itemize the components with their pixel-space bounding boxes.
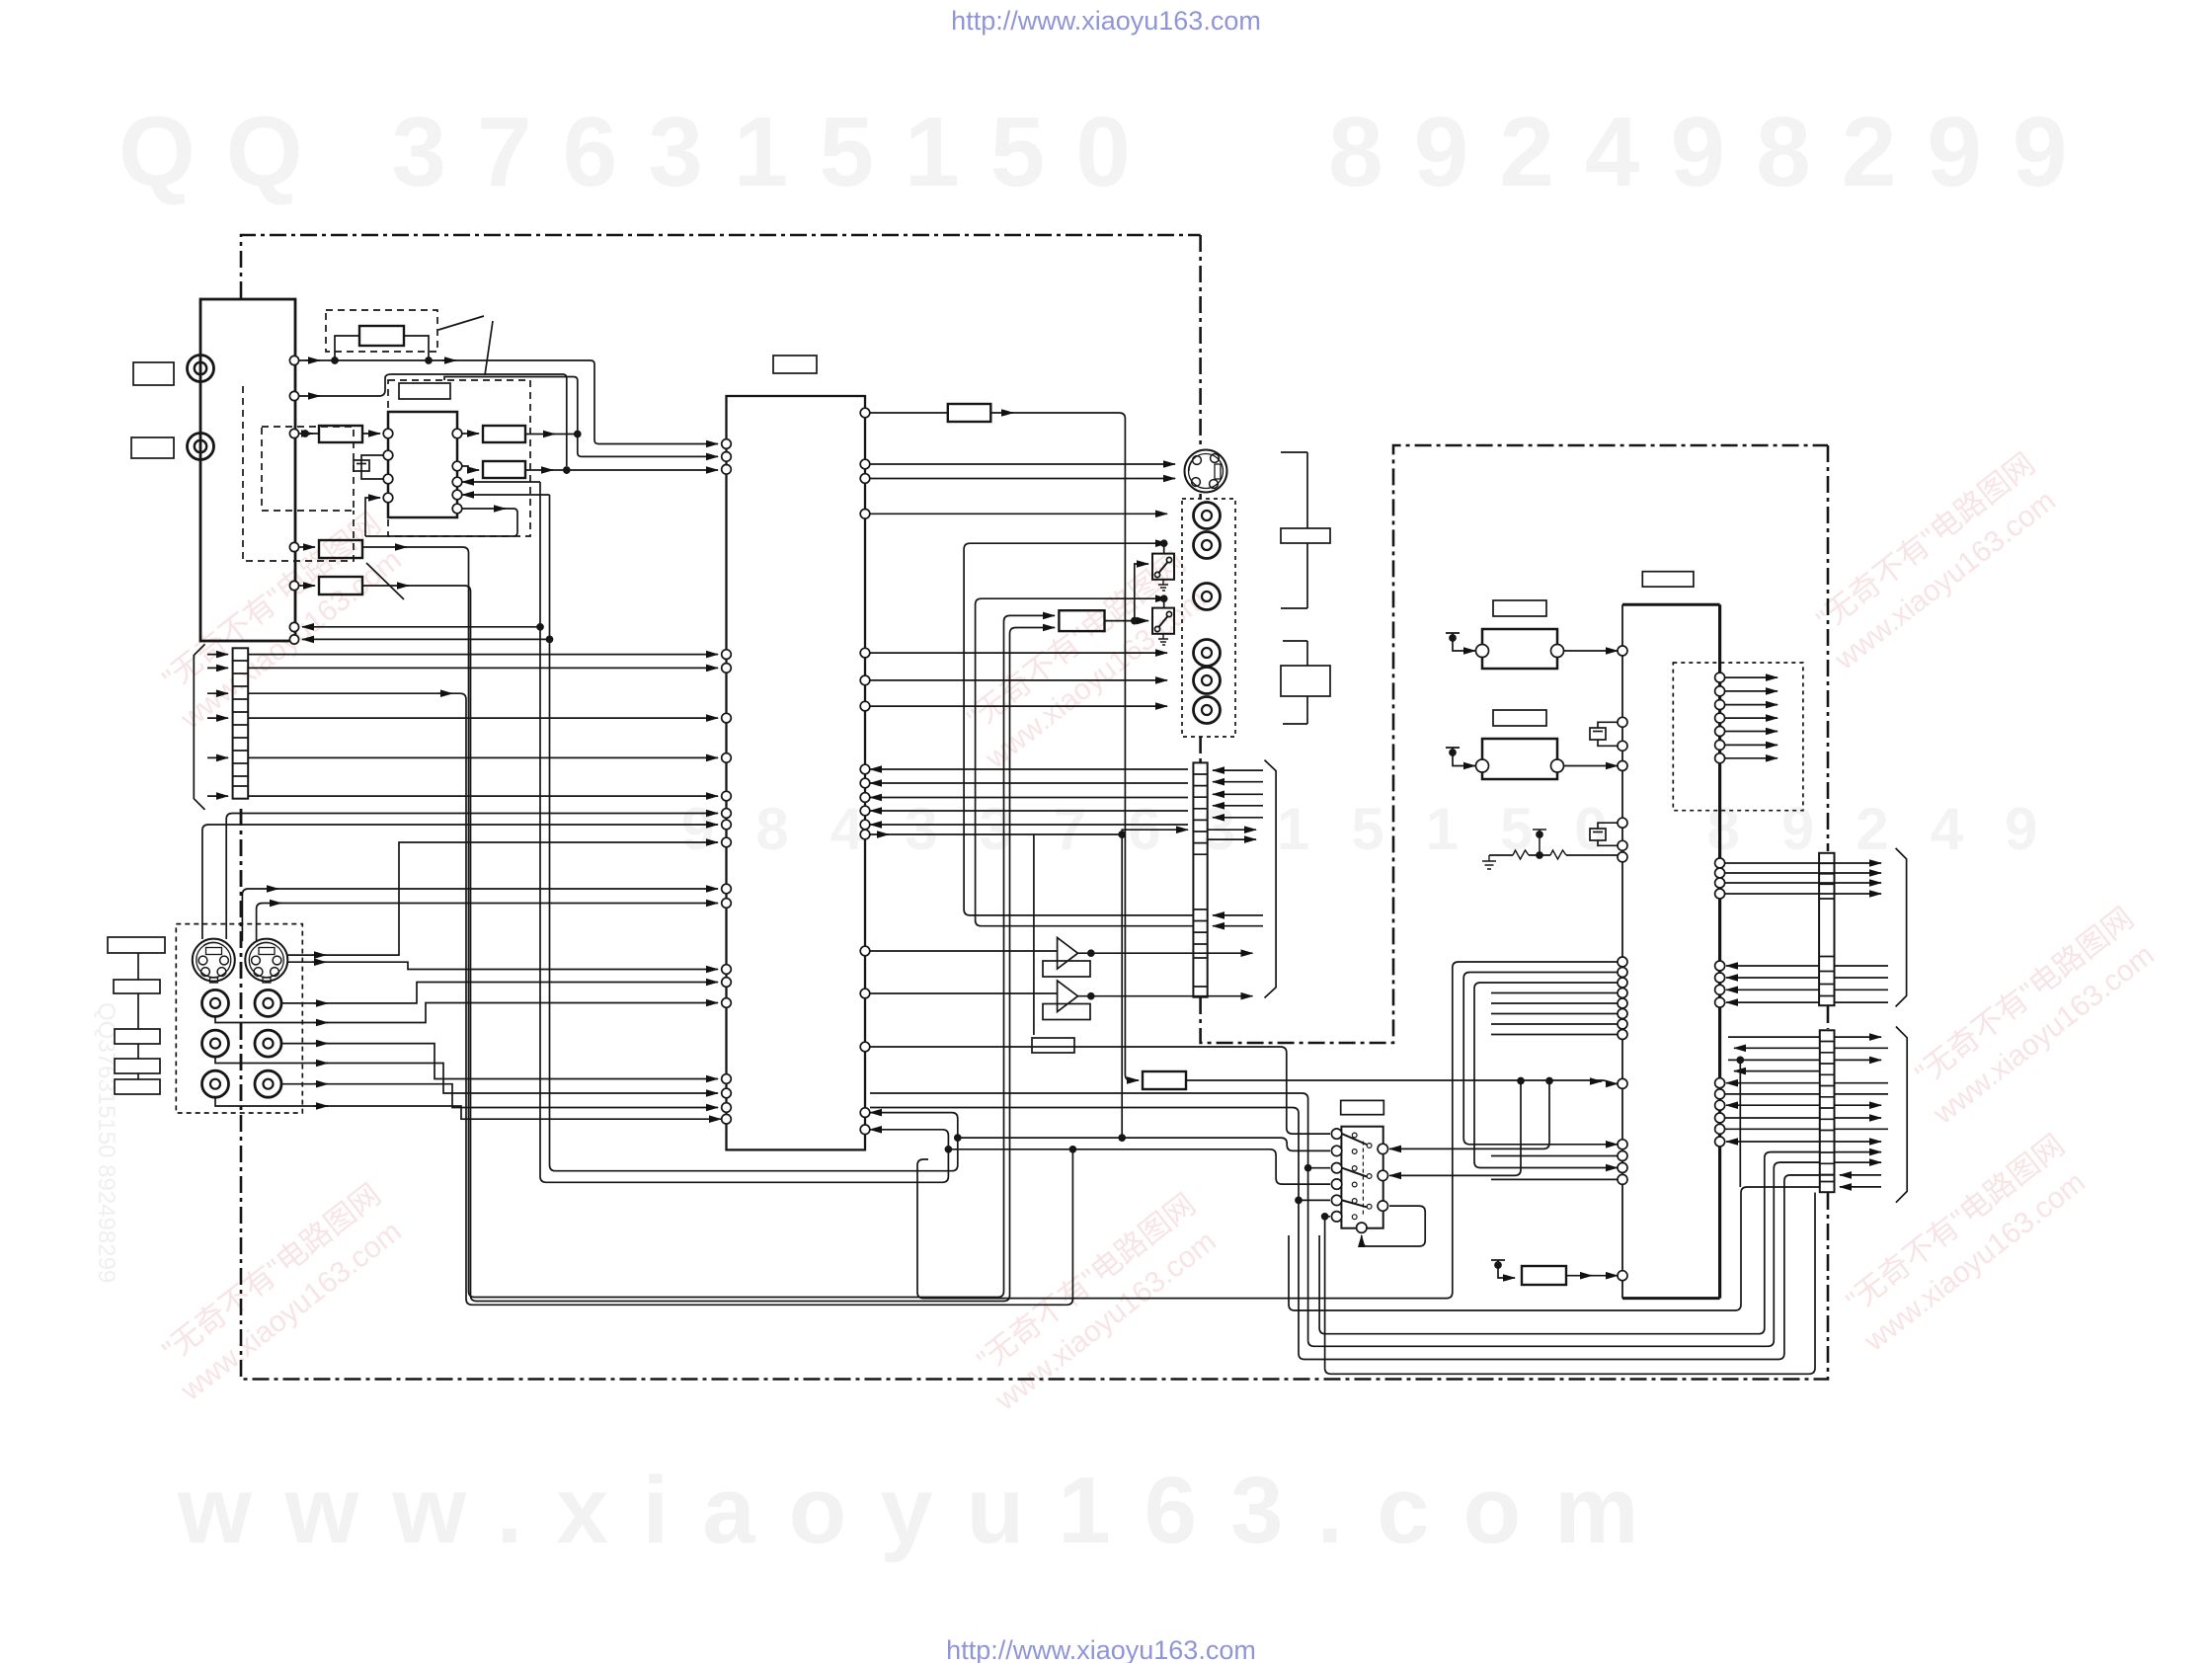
wire CN1 row6 to U3 — [248, 795, 718, 797]
junction node — [1132, 618, 1138, 624]
junction node — [575, 432, 581, 437]
junction node — [1518, 1078, 1524, 1084]
wire CN4 lower staircase left — [1771, 1152, 1820, 1175]
wire R8 out junction — [1105, 620, 1135, 622]
tuner pin P1 — [289, 356, 298, 364]
board outline dash-dot right edge of left board — [1201, 235, 1828, 1043]
D7 arrows out — [1725, 676, 1777, 678]
U4 left pin loop wires — [917, 962, 1618, 1299]
IC U2 right pin 4 — [452, 490, 462, 500]
wire J4 out right 2 — [287, 962, 718, 969]
RCA jack J12 — [1194, 503, 1221, 529]
SW1 left contacts — [1331, 1129, 1341, 1139]
wire J3 up to U3 pin — [202, 825, 718, 939]
wire J10 out — [281, 1084, 718, 1108]
bracket CN4 — [1896, 1027, 1907, 1203]
wire SW1 c6 — [1325, 1217, 1330, 1369]
IC U2 — [388, 412, 457, 517]
wire R6 output down to R8 — [362, 586, 1055, 1302]
wire vertical V1136 — [1121, 834, 1123, 1138]
tuner pin P4 — [289, 542, 298, 551]
IC U2 right pin 1 — [452, 429, 462, 438]
wire R3 output — [525, 434, 578, 436]
wires U4 to CN4 — [1726, 1082, 1820, 1084]
bracket cap structure C1 — [1281, 452, 1307, 608]
wire tuner P5 to R6 — [298, 585, 315, 587]
wire tuner P4 to R5 — [298, 546, 315, 548]
tuner pin P2 — [289, 391, 298, 400]
CN4 row wires left plain — [1728, 1036, 1820, 1038]
wire J8 out — [281, 1044, 718, 1079]
wire U3 to S-video J11 b — [870, 478, 1175, 480]
wire U3 pin1121 down to SW1 c5 — [870, 1108, 1299, 1354]
RCA jack J9 — [202, 1070, 229, 1097]
oscillator block OSC2 — [1482, 739, 1557, 779]
wire U3 pin1060 to SW1 c1 — [870, 1047, 1330, 1134]
crystal X2 — [1598, 722, 1618, 746]
dashed box D3 — [262, 427, 354, 511]
IC U2 right pin 3 — [452, 477, 462, 487]
dashed box D4 — [243, 386, 354, 561]
wire junction to Q2 — [1135, 620, 1148, 622]
bracket CN2 — [1265, 760, 1277, 998]
SW1 dashed common line — [1362, 1142, 1364, 1217]
wire U3 out to CN2 — [870, 830, 1188, 834]
wire U2 pin r4 from vertical — [462, 494, 550, 496]
crystal X3 — [1598, 823, 1618, 845]
tuner pin P5 — [289, 581, 298, 590]
IC U4 audio processor — [1621, 604, 1623, 1298]
CN2 lower right stubs incoming — [1213, 914, 1263, 916]
wire U3 to jack J17 — [870, 705, 1167, 707]
label chain wire — [137, 953, 139, 1079]
wire tuner P2 staircase to IC3 pin3 — [298, 374, 718, 474]
wire U3 pin1107 down to SW1 c3 — [870, 1093, 1308, 1340]
label box LB14 — [1493, 600, 1546, 616]
U4 right pins to CN4 — [1715, 1078, 1725, 1088]
resistor R6 — [319, 577, 362, 594]
wire tuner P1 to IC2 pin1 — [298, 360, 718, 444]
wire U3 to S-video J11 — [870, 463, 1175, 465]
junction node — [945, 1147, 951, 1152]
svg-text:http://www.xiaoyu163.com: http://www.xiaoyu163.com — [946, 1635, 1256, 1663]
tuner pin P6 — [289, 622, 298, 631]
junction node — [332, 357, 338, 363]
connector CN4 ladder — [1820, 1030, 1835, 1192]
U4 left pins lower — [1618, 957, 1627, 967]
wire R4 output — [525, 469, 567, 471]
power tap PT1 — [1446, 633, 1475, 651]
CN3 right stubs — [1835, 965, 1889, 967]
leader line A1 — [438, 316, 484, 330]
resistor R4 — [483, 461, 525, 478]
SW1 right contacts — [1378, 1144, 1387, 1153]
junction node — [426, 357, 432, 363]
label box LB5 — [114, 980, 160, 993]
junction node — [547, 636, 553, 642]
resistor R7 — [948, 404, 991, 422]
wire CN1 row1 to U3 — [248, 654, 718, 656]
junction node — [1161, 595, 1167, 601]
RCA jack J16 — [1194, 668, 1221, 694]
U4 left pins upper — [1618, 646, 1627, 656]
ground symbol GND1 — [1482, 855, 1496, 869]
resistor R8 — [1059, 610, 1104, 631]
oscillator block OSC1 — [1482, 629, 1557, 669]
label box LB6 — [115, 1029, 160, 1044]
label box LB7 — [115, 1059, 160, 1073]
U3 left pins — [722, 439, 732, 449]
dashed box D2 — [388, 380, 530, 536]
switch block SW1 — [1341, 1127, 1382, 1228]
wire R5 output down to R8 — [362, 547, 1055, 1298]
junction node — [302, 431, 308, 436]
junction node — [1296, 1197, 1302, 1203]
IC U2 left pin 2 — [383, 450, 393, 460]
label box LB16 — [1341, 1100, 1384, 1114]
wire J4 out right — [287, 842, 718, 955]
bottom bundle wire BU5 row1202 — [1289, 1187, 1820, 1310]
wire U4 pin1194 left — [1491, 1178, 1618, 1180]
board outline dash-dot left top — [241, 235, 1201, 298]
label box LB11 — [1281, 528, 1330, 543]
junction node — [1737, 1057, 1743, 1063]
RCA jack J10 — [255, 1070, 281, 1097]
svg-text:892498299: 892498299 — [1328, 97, 2098, 207]
wire U3 to jack J15 — [870, 652, 1167, 654]
IC U3 main video processor — [727, 396, 866, 1149]
board outline dash-dot through lower jack group — [240, 809, 243, 1113]
label box LB4 — [108, 937, 165, 953]
wire tuner P3 to R2 to U2 — [298, 433, 380, 435]
junction node — [1322, 1214, 1328, 1220]
long wire LB to SW1 c4 — [948, 1149, 1330, 1184]
wire U2 right1 to R3 — [462, 433, 479, 435]
tuner block T1 — [200, 299, 295, 641]
svg-text:QQ 376315150: QQ 376315150 — [118, 97, 1161, 207]
mute switch Q1 — [1152, 554, 1174, 580]
resistor R5 — [319, 540, 362, 558]
power tap PT4 — [1491, 1260, 1515, 1278]
connector CN3 ladder — [1819, 853, 1834, 1005]
label box LB15 — [1493, 710, 1546, 726]
bottom bundle wire BU4 — [1325, 1193, 1815, 1375]
CN4 right stubs — [1835, 1036, 1882, 1038]
wire OSC1 to U4 — [1564, 650, 1619, 652]
leader line A3 — [366, 563, 404, 599]
tuner pin P7 — [289, 635, 298, 644]
junction node — [955, 1135, 961, 1141]
tuner pin P3 — [289, 429, 298, 437]
resistor R10 — [1522, 1266, 1566, 1285]
resistor R1 leads — [335, 336, 429, 360]
mute switch Q2 — [1152, 608, 1174, 634]
wire J6 out — [281, 983, 718, 1003]
dotted jack box D6 — [1182, 499, 1235, 737]
board outline dash-dot right board edge — [241, 445, 1828, 1380]
junction node — [1088, 950, 1094, 956]
antenna jack J1 — [188, 356, 214, 382]
svg-text:9843376315150 89249: 9843376315150 89249 — [681, 796, 2079, 862]
junction node — [1305, 1165, 1311, 1171]
RCA jack J8 — [255, 1030, 281, 1057]
junction node — [1161, 540, 1167, 546]
U4 right pins to CN3 — [1715, 858, 1725, 868]
wire J7 out — [215, 1057, 718, 1093]
wire R9 to U4 — [1186, 1080, 1618, 1083]
RCA jack J6 — [255, 990, 281, 1016]
bottom bundle wire BU1 — [1299, 1175, 1820, 1360]
wire Q2 to jack line — [1163, 598, 1165, 607]
ground resistor network — [1489, 854, 1618, 856]
IC U2 right pin 5 — [452, 504, 462, 514]
wire CN1 row3 down to LB — [248, 693, 1072, 1305]
dashed jack box D5 — [176, 924, 302, 1113]
wire vertical V556 chain to U3 — [550, 495, 958, 1171]
junction node — [537, 624, 543, 630]
wire U4 pin1170 left — [1491, 1155, 1618, 1157]
wire vertical V547 chain to U3 — [540, 482, 948, 1182]
bottom bundle wire BU3 — [1319, 1152, 1820, 1334]
CN2 right stubs outgoing — [1208, 829, 1256, 831]
connector CN1 ladder — [233, 648, 249, 798]
U4 right pins lower group — [1715, 961, 1725, 971]
RCA jack J17 — [1194, 697, 1221, 724]
wire J4 up to U3 pin — [242, 889, 718, 941]
wire A1 out through CN2 — [1078, 952, 1253, 954]
power tap PT2 — [1446, 748, 1475, 766]
wire CN1 row5 to U3 — [248, 756, 718, 758]
wire Q1 to jack line — [1163, 543, 1165, 553]
wire R9 branch to SW1 r1 — [1389, 1081, 1549, 1149]
junction node R9 branch — [1546, 1078, 1552, 1084]
wire CN1 row2 to U3 — [248, 667, 718, 669]
bottom bundle wire BU2 — [1308, 1162, 1820, 1346]
wire J3 pin up to U3 pin — [226, 814, 718, 940]
junction node — [564, 467, 570, 473]
triangle buffer A1 — [1058, 937, 1078, 969]
RCA jack J7 — [202, 1030, 229, 1057]
wire U3 to jack J12 — [870, 513, 1167, 515]
RCA jack J14 — [1194, 584, 1221, 610]
junction node — [1119, 1135, 1125, 1141]
wire U2 pin r5 loop — [365, 509, 517, 536]
junction node — [1069, 1147, 1075, 1152]
SW1 small contacts and blades — [1352, 1133, 1357, 1138]
wire CN2 row up to jack J13 — [964, 543, 1193, 915]
CN2 wires from U3 pins to ladder — [870, 768, 1188, 770]
crystal X1 — [361, 455, 383, 479]
label box LB13 — [1642, 572, 1694, 587]
label leader V1047 — [1033, 834, 1035, 1035]
wire SW1 r3 loop to bottom pin — [1362, 1206, 1425, 1246]
wire A2 out through CN2 — [1078, 995, 1253, 997]
label box LB9 — [773, 356, 817, 373]
label box LB2 — [131, 437, 174, 458]
bracket cap structure C2 — [1283, 641, 1307, 724]
wire R9 branch to SW1 r2 — [1389, 1081, 1521, 1176]
label box LB8 — [115, 1079, 160, 1094]
resistor R2 — [319, 426, 362, 442]
wire junction up to Q1 — [1135, 564, 1148, 621]
antenna jack J2 — [188, 434, 214, 460]
U4 right pins in D7 — [1715, 673, 1725, 682]
wire J5 out — [215, 1003, 718, 1023]
wire U2 pin r3 from vertical — [462, 481, 540, 483]
IC U2 right pin 2 — [452, 461, 462, 471]
svg-text:www.xiaoyu163.com: www.xiaoyu163.com — [177, 1458, 1672, 1563]
long wire LA to SW1 c2 — [958, 1138, 1330, 1150]
RCA jack J15 — [1194, 640, 1221, 667]
label box LB10 — [1032, 1038, 1074, 1053]
wire OSC2 to U4 — [1564, 765, 1619, 767]
RCA jack J13 — [1194, 532, 1221, 559]
S-video jack J11 — [1185, 450, 1227, 493]
wire U2 right2 to R4 — [462, 466, 479, 470]
connector CN2 ladder — [1193, 762, 1207, 996]
CN2 right stubs incoming — [1213, 769, 1263, 771]
dotted box D7 — [1673, 663, 1803, 811]
dashed box D1 — [326, 310, 437, 352]
resistor R3 — [483, 426, 525, 442]
bracket CN1 — [194, 644, 204, 810]
wire U3 to buffer A1 — [870, 950, 1058, 952]
U3 right pins — [860, 408, 870, 418]
S-video jack J4 — [245, 939, 287, 982]
leader line A2 — [485, 321, 493, 375]
label box LB12 — [1281, 666, 1330, 696]
CN1 input wires — [207, 654, 228, 656]
wire D2 top to IC3 pin2 — [444, 377, 718, 457]
wire CN1 row4 to U3 — [248, 717, 718, 719]
resistor R1 — [359, 326, 404, 346]
wire R10 to U4 pin — [1566, 1275, 1618, 1277]
junction node — [1119, 831, 1125, 837]
IC U2 left pin 1 — [383, 429, 393, 438]
SW1 bottom contact — [1357, 1223, 1367, 1232]
junction node — [1088, 993, 1094, 999]
wire U3 to buffer A2 — [870, 992, 1058, 994]
wire J4 pin up to U3 pin — [257, 904, 718, 942]
svg-text:http://www.xiaoyu163.com: http://www.xiaoyu163.com — [951, 6, 1261, 36]
wire U3 to jack J16 — [870, 679, 1167, 681]
bracket CN3 — [1896, 848, 1907, 1007]
label box LB1 — [133, 362, 174, 385]
IC U2 left pin 4 — [383, 493, 393, 503]
IC U2 left pin 3 — [383, 474, 393, 484]
wire J9 out — [215, 1097, 721, 1119]
watermark pink diagonal instances — [147, 446, 2166, 1418]
wire into U2 pin4 — [365, 498, 380, 536]
triangle buffer A2 — [1058, 981, 1078, 1012]
RCA jack J5 — [202, 990, 229, 1016]
label box LB3 — [399, 383, 450, 399]
S-video jack J3 — [193, 939, 235, 982]
wire U3 to R7 down right — [870, 413, 1139, 1080]
wire vertical V1762 — [1739, 1060, 1741, 1187]
power tap PT3 — [1533, 830, 1546, 855]
resistor R9 — [1143, 1071, 1186, 1089]
wire CN2 row up to jack J14 — [976, 598, 1193, 926]
